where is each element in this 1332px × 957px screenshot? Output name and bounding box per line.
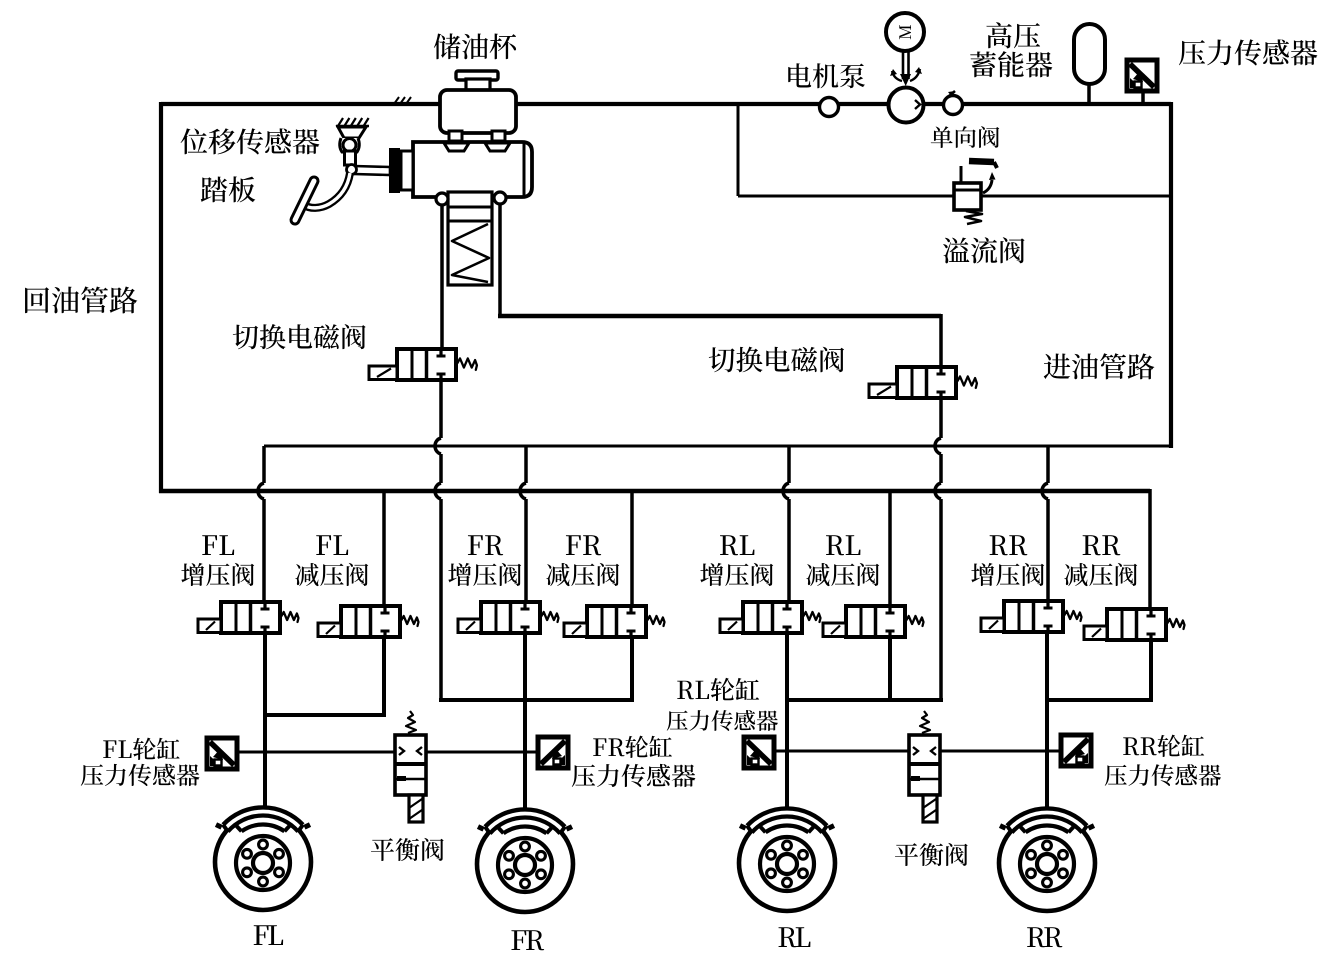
relief valve stub	[960, 166, 963, 184]
label: switch solenoid valve 1	[233, 324, 366, 349]
label: check valve	[931, 126, 1000, 148]
pump suction circle	[820, 98, 839, 117]
wire: return bus y=491	[159, 489, 1150, 494]
wire: relief-valve line y=196	[738, 195, 1171, 198]
master cylinder filler bosses	[444, 143, 469, 151]
wire: SV1 branch horizontal y=700 to FR pair	[439, 698, 632, 702]
tick marks on bus line	[394, 97, 399, 104]
label: pressure sensor	[1179, 39, 1317, 65]
label: FR 增压阀	[468, 535, 503, 555]
RL apply valve	[720, 602, 821, 633]
RR wheel-cylinder pressure sensor	[1061, 735, 1091, 766]
RL wheel-cylinder pressure sensor	[744, 737, 774, 768]
relief valve pilot bar	[969, 161, 994, 162]
label: FR 减压阀	[566, 535, 601, 555]
high pressure accumulator capsule	[1074, 24, 1105, 84]
label: FL 减压阀	[316, 535, 348, 555]
RL reduce valve	[823, 606, 924, 637]
label: displacement sensor	[181, 128, 320, 154]
label: return pipe	[25, 286, 137, 313]
pump circle	[889, 88, 924, 123]
wire: RR wheel line	[1045, 630, 1049, 814]
label: FL wheel	[254, 925, 283, 945]
balance valve 1	[395, 711, 426, 822]
wire: port 2 horizontal y=316 to SV2	[498, 314, 941, 319]
FL wheel-cylinder pressure sensor	[207, 738, 237, 769]
accumulator stem	[1087, 82, 1091, 104]
pushrod joint circle	[347, 165, 357, 175]
pedal bracket	[338, 127, 366, 138]
label: FR wheel	[511, 930, 544, 950]
wire: drop to SV2	[939, 314, 943, 369]
FL reduce valve	[318, 606, 419, 637]
label: FL 增压阀	[202, 535, 234, 555]
wire: RR reduce-valve feed	[1148, 489, 1152, 611]
pedal pad	[295, 181, 314, 220]
wire: RL reduce-valve feed	[888, 491, 892, 608]
relief valve body	[954, 183, 981, 210]
label: balance valve 2	[895, 843, 968, 866]
FL apply valve	[198, 602, 299, 633]
wire: FR reduce-valve bottom	[630, 634, 634, 702]
wire: RL reduce-valve bottom	[888, 634, 892, 702]
label: RR 减压阀	[1083, 535, 1121, 555]
label: RR 增压阀	[990, 535, 1028, 555]
master cylinder front collar	[401, 151, 413, 190]
wire: FR apply-valve feed	[524, 446, 528, 483]
motor-pump shaft	[902, 51, 905, 79]
label: FL wheel-cylinder pressure sensor	[103, 738, 179, 760]
wire: FL reduce-valve feed	[382, 491, 386, 608]
wire: drop from top bus to relief-valve line	[737, 104, 740, 196]
label: pedal	[201, 176, 255, 202]
pressure sensor square	[1127, 60, 1157, 91]
pedal pivot clevis	[340, 138, 360, 152]
label: RL wheel	[779, 927, 811, 947]
displacement sensor pivot circle	[343, 139, 356, 152]
label: reservoir	[434, 33, 516, 59]
label: RR wheel	[1027, 927, 1062, 947]
RR apply valve	[981, 601, 1082, 632]
RL brake disc	[739, 806, 835, 911]
relief valve spring	[965, 211, 982, 224]
FL brake disc	[215, 805, 311, 910]
label: high pressure accumulator	[986, 22, 1040, 48]
wire: SV2 output down across buses	[939, 397, 943, 438]
label: RR wheel-cylinder pressure sensor	[1123, 735, 1204, 757]
label: switch solenoid valve 2	[709, 347, 844, 373]
label: FR wheel-cylinder pressure sensor	[593, 736, 672, 758]
pushrod boot (black)	[389, 148, 400, 193]
master cylinder port circles	[436, 193, 448, 205]
label: RL wheel-cylinder pressure sensor	[677, 678, 759, 701]
wire: RL wheel line	[785, 630, 789, 814]
FR apply valve	[458, 602, 559, 633]
FR reduce valve	[564, 606, 665, 637]
wire: RR apply-valve feed	[1046, 446, 1050, 483]
balance valve 2	[909, 711, 940, 822]
pedal link	[345, 151, 356, 165]
FR wheel-cylinder pressure sensor	[538, 737, 568, 768]
label: RL 减压阀	[826, 535, 860, 555]
pedal arm	[304, 173, 350, 208]
wire: FL reduce-valve bottom + link y=715	[382, 635, 386, 715]
label: motor pump	[788, 63, 865, 88]
reservoir body	[440, 90, 516, 133]
reservoir cap	[456, 71, 498, 80]
wire: FL wheel line	[263, 632, 267, 814]
wire: left frame (return line)	[159, 102, 163, 493]
pushrod	[352, 166, 390, 175]
wire: FL apply-valve feed	[262, 446, 266, 483]
wire: right frame (feed line)	[1169, 102, 1173, 448]
reservoir nipples	[449, 131, 462, 141]
label: balance valve 1	[371, 838, 444, 861]
wire: master cylinder port 2 down	[498, 200, 502, 318]
label: RL 增压阀	[720, 535, 754, 555]
pedal mount hatching	[336, 125, 369, 128]
wire: RR reduce-valve bottom	[1149, 638, 1153, 702]
pressure sensor stem	[1141, 91, 1145, 104]
solenoid valve SV2	[869, 367, 977, 398]
wire: RL apply-valve feed	[787, 446, 791, 483]
label: feed pipe	[1044, 353, 1155, 379]
motor circle with M	[886, 13, 924, 51]
wire: master cylinder port 1 to SV1	[440, 200, 444, 351]
wire: RR pair link y=700	[1046, 698, 1151, 702]
wire: feed bus y=446	[264, 445, 1171, 448]
wire: top return-line bus	[161, 102, 1171, 106]
wire: FR reduce-valve feed	[630, 491, 634, 608]
label: relief valve	[943, 237, 1025, 263]
relief valve pilot curve	[983, 180, 992, 193]
wire: SV2 branch horizontal y=700 to RL pair	[787, 698, 943, 702]
wire: FR wheel line	[523, 631, 527, 814]
wire: SV1 output down across buses	[439, 379, 443, 438]
label: M in motor	[899, 25, 911, 39]
check valve circle	[944, 96, 963, 115]
master cylinder body	[413, 142, 532, 197]
solenoid valve SV1	[369, 349, 477, 380]
RR reduce valve	[1084, 609, 1185, 640]
RR brake disc	[999, 806, 1095, 911]
FR brake disc	[477, 807, 573, 912]
wire: RL sensor row	[773, 750, 911, 753]
pedal simulator spring box	[448, 192, 492, 285]
wire: FL sensor row	[237, 751, 397, 754]
